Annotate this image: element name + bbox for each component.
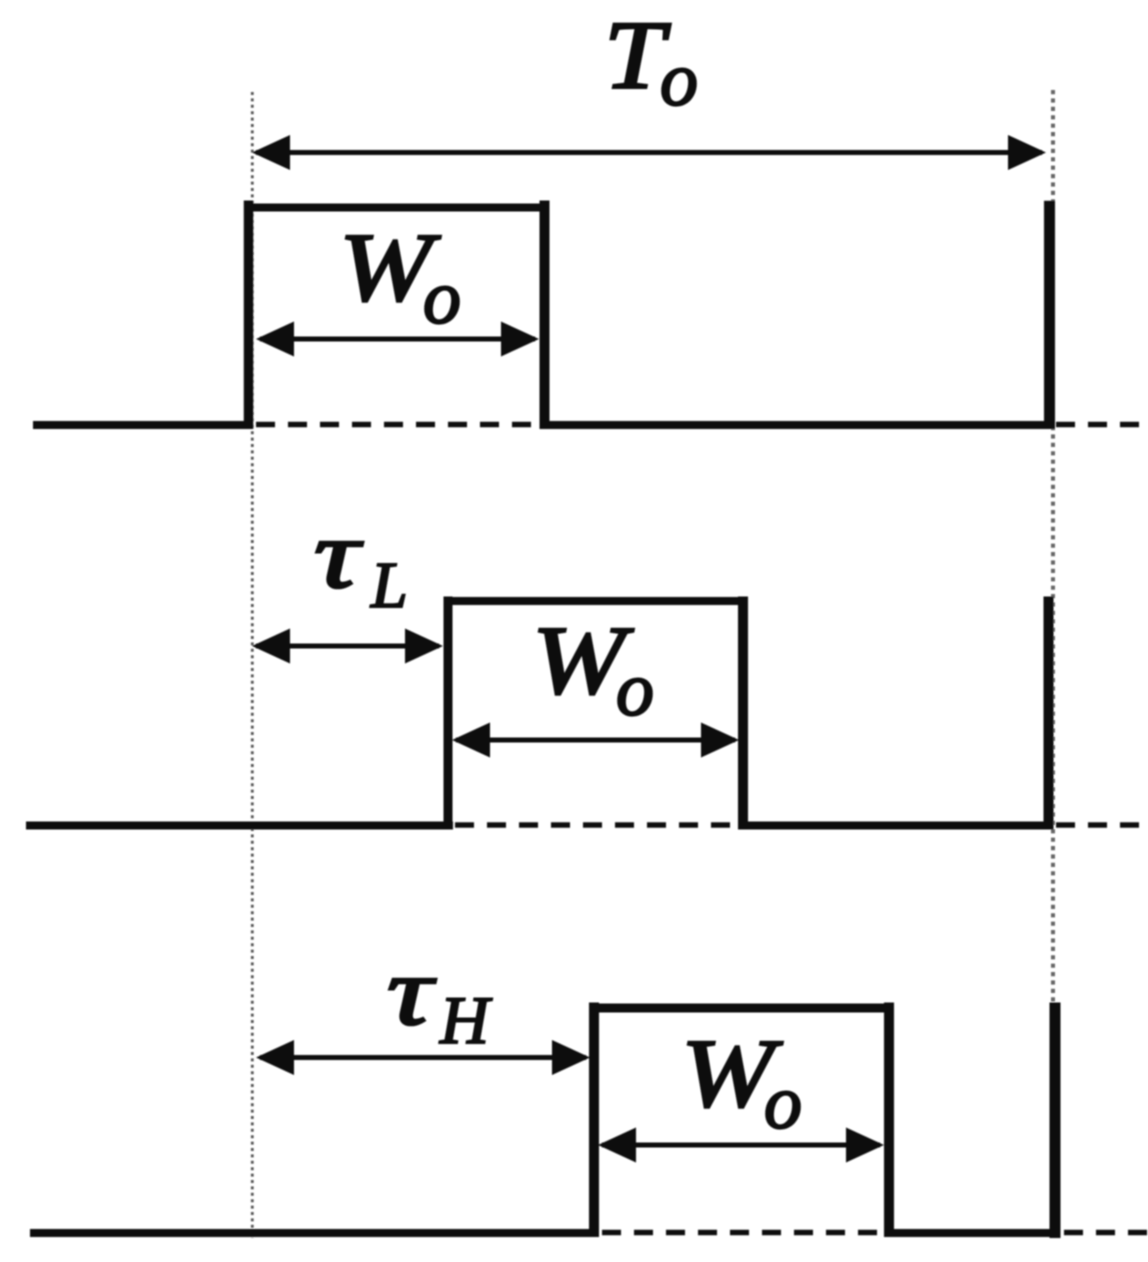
arrow tau_H high-shift delay [256,1040,590,1075]
arrow To period span [252,135,1046,170]
wire waveform1 baseline right [544,421,1053,429]
label To [604,2,698,122]
wire waveform1 dashed low level under pulse [256,422,540,428]
wire waveform2 baseline left [26,822,453,830]
wire waveform2 falling edge [738,597,748,830]
arrow Wo pulse1 width [256,322,539,357]
label tau_L [314,501,408,622]
svg-text:o: o [616,648,654,732]
wire waveform1 dashed low level right [1056,422,1148,428]
wire waveform3 rising edge [589,1003,599,1238]
wire waveform1 baseline left [33,421,253,429]
svg-text:o: o [660,38,698,122]
node right reference dotted line (period end) [1051,90,1055,1003]
wire waveform2 baseline right [742,822,1053,830]
arrow Wo pulse2 width [452,723,739,758]
wire waveform1 falling edge [540,201,550,430]
wire waveform2 dashed low level under pulse [455,822,739,828]
node left reference dotted line (period start) [251,92,254,1238]
arrow tau_L low-shift delay [252,629,443,664]
wire waveform2 rising edge [444,597,453,830]
svg-text:o: o [764,1061,802,1145]
wire waveform1 pulse top [244,204,550,212]
wire waveform3 dashed low level right [1064,1230,1148,1236]
svg-text:τ: τ [387,938,436,1045]
wire waveform3 falling edge [884,1003,894,1238]
label Wo pulse1 [339,214,461,340]
svg-text:L: L [370,549,408,622]
wire waveform3 pulse top [589,1004,894,1013]
svg-text:H: H [439,982,493,1058]
wire waveform2 dashed low level right [1056,822,1148,828]
label tau_H [387,938,493,1058]
arrow Wo pulse3 width [598,1128,884,1163]
svg-text:τ: τ [314,501,363,608]
wire waveform2 next period rising edge [1044,597,1054,830]
label Wo pulse2 [532,607,654,732]
wire waveform3 next period rising edge [1050,1003,1061,1239]
wire waveform3 dashed low level under pulse [602,1230,886,1236]
wire waveform3 baseline left [30,1229,599,1237]
svg-text:o: o [423,256,461,340]
wire waveform2 pulse top [444,597,749,605]
wire waveform1 rising edge [244,201,254,430]
label Wo pulse3 [681,1020,802,1145]
wire waveform3 baseline right [888,1229,1060,1237]
wire waveform1 next period rising edge [1044,201,1055,429]
